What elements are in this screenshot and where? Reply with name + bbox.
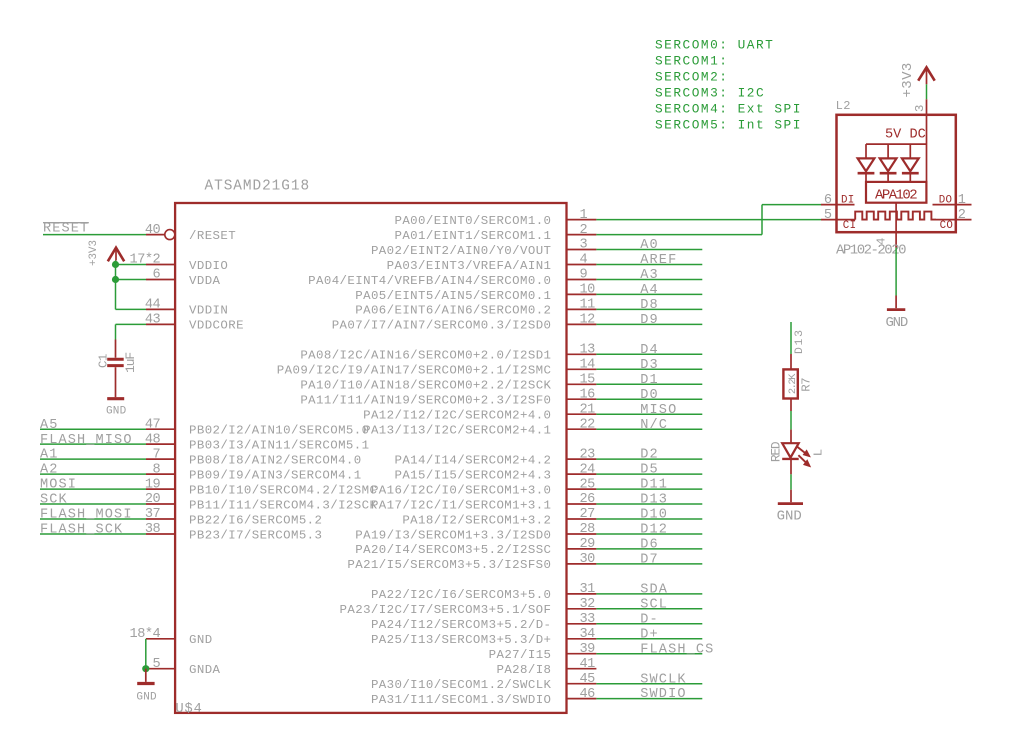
pin 9 PA04/EINT4/VREFB/AIN4/SERCOM0.0 xyxy=(308,268,596,288)
svg-text:FLASH_CS: FLASH_CS xyxy=(640,642,714,657)
wire VDDCORE to C1 xyxy=(116,324,147,339)
svg-text:PA00/EINT0/SERCOM1.0: PA00/EINT0/SERCOM1.0 xyxy=(394,214,551,228)
svg-text:D7: D7 xyxy=(640,553,659,568)
wire net MOSI xyxy=(40,488,146,490)
svg-text:D0: D0 xyxy=(640,388,659,403)
wire net A5 xyxy=(40,428,146,430)
svg-text:GND: GND xyxy=(885,315,907,331)
wire net N/C xyxy=(596,428,702,430)
pin 27 PA18/I2/SERCOM1+3.2 xyxy=(402,507,596,527)
svg-text:41: 41 xyxy=(580,657,596,672)
svg-text:45: 45 xyxy=(580,672,596,687)
pin 1 DO of L2 xyxy=(933,193,972,208)
wire net A4 xyxy=(596,293,702,295)
svg-text:22: 22 xyxy=(580,417,596,432)
svg-text:2: 2 xyxy=(958,208,966,223)
svg-text:PA20/I4/SERCOM3+5.2/I2SSC: PA20/I4/SERCOM3+5.2/I2SSC xyxy=(355,543,551,557)
svg-text:PA13/I13/I2C/SERCOM2+4.1: PA13/I13/I2C/SERCOM2+4.1 xyxy=(363,424,551,438)
svg-text:PB08/I8/AIN2/SERCOM4.0: PB08/I8/AIN2/SERCOM4.0 xyxy=(189,453,362,467)
svg-text:PA02/EINT2/AIN0/Y0/VOUT: PA02/EINT2/AIN0/Y0/VOUT xyxy=(371,244,551,258)
svg-text:D11: D11 xyxy=(640,478,668,493)
node D- xyxy=(640,612,659,627)
svg-text:26: 26 xyxy=(580,492,596,507)
svg-text:A4: A4 xyxy=(640,283,659,298)
svg-text:VDDCORE: VDDCORE xyxy=(189,319,244,333)
svg-text:/RESET: /RESET xyxy=(189,229,236,243)
svg-text:D6: D6 xyxy=(640,538,659,553)
svg-text:VDDIO: VDDIO xyxy=(189,259,228,273)
svg-text:PA16/I2C/I0/SERCOM1+3.0: PA16/I2C/I0/SERCOM1+3.0 xyxy=(371,483,551,497)
pin 13 PA08/I2C/AIN16/SERCOM0+2.0/I2SD1 xyxy=(300,343,596,363)
wire net D4 xyxy=(596,353,702,355)
svg-text:CO: CO xyxy=(940,220,954,232)
pin 10 PA05/EINT5/AIN5/SERCOM0.1 xyxy=(355,283,596,303)
svg-text:SERCOM4: Ext SPI: SERCOM4: Ext SPI xyxy=(655,102,802,117)
svg-text:PB02/I2/AIN10/SERCOM5.0: PB02/I2/AIN10/SERCOM5.0 xyxy=(189,424,369,438)
svg-text:SERCOM5: Int SPI: SERCOM5: Int SPI xyxy=(655,118,802,133)
svg-text:9: 9 xyxy=(580,268,588,283)
svg-text:32: 32 xyxy=(580,597,596,612)
node A2 xyxy=(40,463,59,478)
svg-text:D10: D10 xyxy=(640,508,668,523)
pin 34 PA25/I13/SERCOM3+5.3/D+ xyxy=(371,627,596,647)
svg-text:D12: D12 xyxy=(640,523,668,538)
svg-text:43: 43 xyxy=(145,313,161,328)
svg-text:18*4: 18*4 xyxy=(130,627,161,642)
node D7 xyxy=(640,553,659,568)
wire net SWCLK xyxy=(596,683,702,685)
svg-text:10: 10 xyxy=(580,283,596,298)
pin 43 VDDCORE xyxy=(145,313,244,333)
wire net FLASH_SCK xyxy=(40,533,146,535)
pin 18*4 GND xyxy=(130,627,213,647)
pin 26 PA17/I2C/I1/SERCOM1+3.1 xyxy=(371,492,596,512)
label L2 xyxy=(836,99,851,113)
svg-text:31: 31 xyxy=(580,582,596,597)
pin 20 PB11/I11/SERCOM4.3/I2SCK xyxy=(145,492,378,512)
node D13 xyxy=(640,493,668,508)
pin 15 PA10/I10/AIN18/SERCOM0+2.2/I2SCK xyxy=(300,373,596,393)
LED D (RED) xyxy=(769,430,826,475)
node FLASH_MOSI xyxy=(40,508,133,523)
svg-text:A0: A0 xyxy=(640,238,659,253)
svg-text:48: 48 xyxy=(145,432,161,447)
svg-text:+3V3: +3V3 xyxy=(900,62,916,97)
svg-text:PA17/I2C/I1/SERCOM1+3.1: PA17/I2C/I1/SERCOM1+3.1 xyxy=(371,498,551,512)
svg-text:FLASH_MISO: FLASH_MISO xyxy=(40,433,133,448)
pin 46 PA31/I11/SECOM1.3/SWDIO xyxy=(371,687,596,707)
svg-text:PA28/I8: PA28/I8 xyxy=(496,663,551,677)
svg-text:+3V3: +3V3 xyxy=(88,240,100,266)
pin 6 DI of L2 xyxy=(821,193,855,208)
wire net D12 xyxy=(596,533,702,535)
svg-text:RESET: RESET xyxy=(43,221,89,236)
svg-text:SERCOM2:: SERCOM2: xyxy=(655,70,728,85)
pin 7 PB08/I8/AIN2/SERCOM4.0 xyxy=(146,447,362,467)
wire net FLASH_MOSI xyxy=(40,518,146,520)
pin 28 PA19/I3/SERCOM1+3.3/I2SD0 xyxy=(355,522,596,542)
svg-text:PA23/I2C/I7/SERCOM3+5.1/SOF: PA23/I2C/I7/SERCOM3+5.1/SOF xyxy=(340,603,552,617)
svg-text:PA06/EINT6/AIN6/SERCOM0.2: PA06/EINT6/AIN6/SERCOM0.2 xyxy=(355,304,551,318)
svg-text:PB03/I3/AIN11/SERCOM5.1: PB03/I3/AIN11/SERCOM5.1 xyxy=(189,438,369,452)
pin 45 PA30/I10/SECOM1.2/SWCLK xyxy=(371,672,596,692)
pin 40 /RESET with inversion bubble xyxy=(145,223,236,243)
pin 2 PA01/EINT1/SERCOM1.1 xyxy=(394,223,596,243)
pin 41 PA28/I8 xyxy=(496,657,596,677)
node FLASH_CS xyxy=(640,642,714,657)
svg-text:4: 4 xyxy=(580,253,588,268)
ground GND below LED xyxy=(777,490,803,525)
svg-text:PA11/I11/AIN19/SERCOM0+2.3/I2S: PA11/I11/AIN19/SERCOM0+2.3/I2SF0 xyxy=(300,394,551,408)
wire net SWDIO xyxy=(596,698,702,700)
pin 5 GNDA xyxy=(146,657,221,677)
capacitor C1 1uF xyxy=(96,340,137,398)
svg-text:SERCOM3: I2C: SERCOM3: I2C xyxy=(655,86,765,101)
wire net D13 xyxy=(596,503,702,505)
wire net FLASH_MISO xyxy=(40,443,146,445)
node N/C xyxy=(640,418,668,433)
svg-text:SWDIO: SWDIO xyxy=(640,687,686,702)
svg-text:8: 8 xyxy=(153,462,161,477)
pin 29 PA20/I4/SERCOM3+5.2/I2SSC xyxy=(355,537,596,557)
svg-text:L2: L2 xyxy=(836,99,851,113)
svg-text:N/C: N/C xyxy=(640,418,668,433)
wire net SDA xyxy=(596,593,702,595)
svg-text:33: 33 xyxy=(580,612,596,627)
svg-text:5: 5 xyxy=(153,657,161,672)
svg-text:6: 6 xyxy=(153,268,161,283)
wire net SCK xyxy=(40,503,146,505)
wire net A0 xyxy=(596,249,702,251)
node A0 xyxy=(640,238,659,253)
svg-text:25: 25 xyxy=(580,477,596,492)
svg-text:PA03/EINT3/VREFA/AIN1: PA03/EINT3/VREFA/AIN1 xyxy=(387,259,552,273)
svg-text:5V DC: 5V DC xyxy=(885,128,926,143)
svg-text:PB10/I10/SERCOM4.2/I2SMC: PB10/I10/SERCOM4.2/I2SMC xyxy=(189,483,377,497)
node D8 xyxy=(640,298,659,313)
svg-text:23: 23 xyxy=(580,447,596,462)
svg-text:6: 6 xyxy=(824,193,832,208)
node SCK xyxy=(40,493,68,508)
svg-text:17*2: 17*2 xyxy=(130,253,161,268)
node MOSI xyxy=(40,478,77,493)
pin 3 VDD of L2 xyxy=(913,99,927,115)
svg-text:D3: D3 xyxy=(640,358,659,373)
wire net D1 xyxy=(596,383,702,385)
wire net RESET xyxy=(43,234,146,236)
svg-text:27: 27 xyxy=(580,507,596,522)
pin 24 PA15/I15/SERCOM2+4.3 xyxy=(394,462,596,482)
svg-text:PB09/I9/AIN3/SERCOM4.1: PB09/I9/AIN3/SERCOM4.1 xyxy=(189,468,362,482)
svg-text:A2: A2 xyxy=(40,463,59,478)
svg-text:15: 15 xyxy=(580,373,596,388)
pin 22 PA13/I13/I2C/SERCOM2+4.1 xyxy=(363,417,596,437)
node AREF xyxy=(640,253,677,268)
svg-text:FLASH_SCK: FLASH_SCK xyxy=(40,523,123,538)
clock squarewave glyph inside L2 xyxy=(855,212,936,220)
pin 8 PB09/I9/AIN3/SERCOM4.1 xyxy=(146,462,362,482)
pin 2 CO of L2 xyxy=(936,208,972,232)
wire PA00 to APA102 CI xyxy=(596,219,821,221)
LED module L2 APA102 body xyxy=(837,115,956,232)
svg-text:1: 1 xyxy=(958,193,966,208)
svg-text:PA12/I12/I2C/SERCOM2+4.0: PA12/I12/I2C/SERCOM2+4.0 xyxy=(363,409,551,423)
svg-text:D13: D13 xyxy=(640,493,668,508)
svg-text:DI: DI xyxy=(841,194,855,206)
svg-text:SERCOM0: UART: SERCOM0: UART xyxy=(655,38,774,53)
svg-text:R7: R7 xyxy=(800,378,814,392)
svg-text:PA04/EINT4/VREFB/AIN4/SERCOM0.: PA04/EINT4/VREFB/AIN4/SERCOM0.0 xyxy=(308,274,551,288)
svg-text:L: L xyxy=(812,449,826,456)
wire PA01 to APA102 DI xyxy=(596,205,821,235)
wire net D6 xyxy=(596,548,702,550)
svg-text:24: 24 xyxy=(580,462,596,477)
wire net A1 xyxy=(40,458,146,460)
pin 37 PB22/I6/SERCOM5.2 xyxy=(145,507,323,527)
svg-text:PA30/I10/SECOM1.2/SWCLK: PA30/I10/SECOM1.2/SWCLK xyxy=(371,678,552,692)
svg-text:13: 13 xyxy=(580,343,596,358)
resistor R7 2.2K xyxy=(783,354,813,411)
svg-text:RED: RED xyxy=(769,441,784,462)
wire net D7 xyxy=(596,563,702,565)
svg-text:D2: D2 xyxy=(640,448,659,463)
pin 17*2 VDDIO xyxy=(130,253,229,273)
ground GND below C1 xyxy=(106,399,127,418)
svg-text:SERCOM1:: SERCOM1: xyxy=(655,54,728,69)
svg-text:PA18/I2/SERCOM1+3.2: PA18/I2/SERCOM1+3.2 xyxy=(402,513,551,527)
LED diode 3 inside L2 xyxy=(902,144,919,182)
svg-text:GNDA: GNDA xyxy=(189,663,221,677)
svg-text:A1: A1 xyxy=(40,448,59,463)
wire R7 to LED xyxy=(790,411,792,430)
svg-text:GND: GND xyxy=(106,405,127,417)
wire net D2 xyxy=(596,458,702,460)
node A5 xyxy=(40,418,59,433)
svg-text:14: 14 xyxy=(580,358,596,373)
wire +3V3 to VDDIO/VDDA/VDDIN xyxy=(116,261,147,310)
IC U$4 ATSAMD21G18 body xyxy=(175,203,566,713)
node RESET (active low) xyxy=(43,221,89,236)
svg-text:A3: A3 xyxy=(640,268,659,283)
svg-text:PA10/I10/AIN18/SERCOM0+2.2/I2S: PA10/I10/AIN18/SERCOM0+2.2/I2SCK xyxy=(300,379,551,393)
node MISO xyxy=(640,403,677,418)
svg-text:C1: C1 xyxy=(96,354,110,368)
ground GND bottom left xyxy=(136,669,157,704)
pin 19 PB10/I10/SERCOM4.2/I2SMC xyxy=(145,477,377,497)
node FLASH_MISO xyxy=(40,433,133,448)
pin 30 PA21/I5/SERCOM3+5.3/I2SFS0 xyxy=(347,552,596,572)
node D4 xyxy=(640,343,659,358)
node D9 xyxy=(640,313,659,328)
svg-text:11: 11 xyxy=(580,298,596,313)
node A1 xyxy=(40,448,59,463)
power +3V3 supply symbol (APA102) xyxy=(900,62,935,97)
wire net D5 xyxy=(596,473,702,475)
svg-text:PA24/I12/SERCOM3+5.2/D-: PA24/I12/SERCOM3+5.2/D- xyxy=(371,618,551,632)
svg-text:PA22/I2C/I6/SERCOM3+5.0: PA22/I2C/I6/SERCOM3+5.0 xyxy=(371,588,551,602)
node D13 xyxy=(794,328,806,354)
svg-text:5: 5 xyxy=(824,208,832,223)
svg-text:PA15/I15/SERCOM2+4.3: PA15/I15/SERCOM2+4.3 xyxy=(394,468,551,482)
svg-text:PA19/I3/SERCOM1+3.3/I2SD0: PA19/I3/SERCOM1+3.3/I2SD0 xyxy=(355,528,551,542)
svg-text:2: 2 xyxy=(580,223,588,238)
node D11 xyxy=(640,478,668,493)
svg-text:FLASH_MOSI: FLASH_MOSI xyxy=(40,508,133,523)
svg-text:D-: D- xyxy=(640,612,659,627)
svg-text:16: 16 xyxy=(580,387,596,402)
svg-text:34: 34 xyxy=(580,627,596,642)
junction at VDDIO xyxy=(112,261,119,268)
svg-text:3: 3 xyxy=(580,238,588,253)
wire +3V3 to L2 pin 3 xyxy=(926,84,928,99)
svg-text:1uF: 1uF xyxy=(123,353,138,373)
node SERCOM assignment notes xyxy=(655,38,802,133)
svg-text:28: 28 xyxy=(580,522,596,537)
svg-text:SCL: SCL xyxy=(640,597,668,612)
wire net D8 xyxy=(596,308,702,310)
pin 32 PA23/I2C/I7/SERCOM3+5.1/SOF xyxy=(340,597,597,617)
svg-text:CI: CI xyxy=(843,220,857,232)
svg-text:PA31/I11/SECOM1.3/SWDIO: PA31/I11/SECOM1.3/SWDIO xyxy=(371,693,551,707)
svg-text:D4: D4 xyxy=(640,343,659,358)
label U$4 xyxy=(176,702,203,717)
svg-text:GND: GND xyxy=(136,692,157,704)
svg-text:D13: D13 xyxy=(794,328,806,354)
node SDA xyxy=(640,583,668,598)
wire net D- xyxy=(596,623,702,625)
svg-text:PA07/I7/AIN7/SERCOM0.3/I2SD0: PA07/I7/AIN7/SERCOM0.3/I2SD0 xyxy=(332,319,552,333)
svg-text:D9: D9 xyxy=(640,313,659,328)
wire net D0 xyxy=(596,398,702,400)
pin 48 PB03/I3/AIN11/SERCOM5.1 xyxy=(145,432,370,452)
wire net A3 xyxy=(596,279,702,281)
wire net D+ xyxy=(596,638,702,640)
svg-text:A5: A5 xyxy=(40,418,59,433)
label ATSAMD21G18 xyxy=(205,179,311,195)
pin 1 PA00/EINT0/SERCOM1.0 xyxy=(394,208,596,228)
svg-text:D5: D5 xyxy=(640,463,659,478)
wire net MISO xyxy=(596,413,702,415)
svg-text:PA08/I2C/AIN16/SERCOM0+2.0/I2S: PA08/I2C/AIN16/SERCOM0+2.0/I2SD1 xyxy=(300,349,551,363)
svg-text:D8: D8 xyxy=(640,298,659,313)
svg-text:U$4: U$4 xyxy=(176,702,203,717)
svg-text:2.2K: 2.2K xyxy=(787,373,799,394)
wire L2 pin4 to GND xyxy=(895,248,897,296)
pin 47 PB02/I2/AIN10/SERCOM5.0 xyxy=(145,417,370,437)
wire net D10 xyxy=(596,518,702,520)
pin 25 PA16/I2C/I0/SERCOM1+3.0 xyxy=(371,477,596,497)
pin 39 PA27/I15 xyxy=(489,642,597,662)
pin 5 CI of L2 xyxy=(821,208,856,232)
pin 4 GND of L2 xyxy=(875,203,897,248)
svg-text:7: 7 xyxy=(153,447,161,462)
svg-text:SDA: SDA xyxy=(640,583,668,598)
svg-text:VDDIN: VDDIN xyxy=(189,304,228,318)
svg-text:38: 38 xyxy=(145,522,161,537)
wire net D13 xyxy=(790,322,792,354)
node D3 xyxy=(640,358,659,373)
svg-text:44: 44 xyxy=(145,298,161,313)
pin 44 VDDIN xyxy=(145,298,228,318)
svg-text:ATSAMD21G18: ATSAMD21G18 xyxy=(205,179,311,195)
LED diode 1 inside L2 xyxy=(858,144,875,182)
pin 38 PB23/I7/SERCOM5.3 xyxy=(145,522,323,542)
node A3 xyxy=(640,268,659,283)
pin 3 PA02/EINT2/AIN0/Y0/VOUT xyxy=(371,238,596,258)
svg-text:D1: D1 xyxy=(640,373,659,388)
node D2 xyxy=(640,448,659,463)
svg-text:SWCLK: SWCLK xyxy=(640,672,686,687)
svg-text:PA05/EINT5/AIN5/SERCOM0.1: PA05/EINT5/AIN5/SERCOM0.1 xyxy=(355,289,551,303)
node D+ xyxy=(640,627,659,642)
svg-text:PA27/I15: PA27/I15 xyxy=(489,648,552,662)
svg-text:1: 1 xyxy=(580,208,588,223)
node A4 xyxy=(640,283,659,298)
LED diode 2 inside L2 xyxy=(880,144,897,182)
pin 12 PA07/I7/AIN7/SERCOM0.3/I2SD0 xyxy=(332,313,597,333)
svg-text:47: 47 xyxy=(145,417,161,432)
svg-text:GND: GND xyxy=(189,633,213,647)
node D1 xyxy=(640,373,659,388)
pin 4 PA03/EINT3/VREFA/AIN1 xyxy=(387,253,597,273)
svg-text:VDDA: VDDA xyxy=(189,274,221,288)
node SWCLK xyxy=(640,672,686,687)
pin 6 VDDA xyxy=(146,268,221,288)
pin 16 PA11/I11/AIN19/SERCOM0+2.3/I2SF0 xyxy=(300,387,596,407)
svg-text:GND: GND xyxy=(777,509,802,525)
power +3V3 supply symbol (left) xyxy=(88,240,124,266)
svg-text:PA21/I5/SERCOM3+5.3/I2SFS0: PA21/I5/SERCOM3+5.3/I2SFS0 xyxy=(347,558,551,572)
svg-text:12: 12 xyxy=(580,313,596,328)
svg-text:19: 19 xyxy=(145,477,161,492)
pin 23 PA14/I14/SERCOM2+4.2 xyxy=(394,447,596,467)
APA102 inner label box xyxy=(866,182,926,204)
node SWDIO xyxy=(640,687,686,702)
pin 14 PA09/I2C/I9/AIN17/SERCOM0+2.1/I2SMC xyxy=(277,358,597,378)
svg-text:PB22/I6/SERCOM5.2: PB22/I6/SERCOM5.2 xyxy=(189,513,322,527)
svg-text:APA102: APA102 xyxy=(875,188,917,204)
svg-text:SCK: SCK xyxy=(40,493,68,508)
junction at GNDA xyxy=(142,665,149,672)
ground GND below L2 xyxy=(885,296,907,332)
node D5 xyxy=(640,463,659,478)
svg-text:PA01/EINT1/SERCOM1.1: PA01/EINT1/SERCOM1.1 xyxy=(394,229,551,243)
wire LED to GND xyxy=(790,474,792,489)
svg-text:39: 39 xyxy=(580,642,596,657)
node D10 xyxy=(640,508,668,523)
svg-text:20: 20 xyxy=(145,492,161,507)
pin 33 PA24/I12/SERCOM3+5.2/D- xyxy=(371,612,596,632)
svg-text:AREF: AREF xyxy=(640,253,677,268)
svg-text:DO: DO xyxy=(939,194,953,206)
node D0 xyxy=(640,388,659,403)
svg-text:40: 40 xyxy=(145,223,161,238)
wire GND pin to GNDA xyxy=(145,639,147,669)
wire net D9 xyxy=(596,323,702,325)
svg-text:PA25/I13/SERCOM3+5.3/D+: PA25/I13/SERCOM3+5.3/D+ xyxy=(371,633,551,647)
wire net D3 xyxy=(596,368,702,370)
svg-text:46: 46 xyxy=(580,687,596,702)
svg-text:D+: D+ xyxy=(640,627,659,642)
pin 11 PA06/EINT6/AIN6/SERCOM0.2 xyxy=(355,298,596,318)
svg-text:PA14/I14/SERCOM2+4.2: PA14/I14/SERCOM2+4.2 xyxy=(394,453,551,467)
node D6 xyxy=(640,538,659,553)
svg-text:PB23/I7/SERCOM5.3: PB23/I7/SERCOM5.3 xyxy=(189,528,322,542)
svg-text:MISO: MISO xyxy=(640,403,677,418)
svg-text:PA09/I2C/I9/AIN17/SERCOM0+2.1/: PA09/I2C/I9/AIN17/SERCOM0+2.1/I2SMC xyxy=(277,364,552,378)
svg-text:MOSI: MOSI xyxy=(40,478,77,493)
node FLASH_SCK xyxy=(40,523,123,538)
